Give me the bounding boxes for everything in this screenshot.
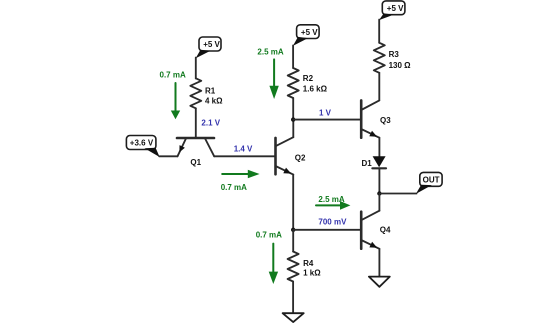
junction node OUT: [377, 191, 381, 195]
resistor R4: [288, 252, 322, 282]
wire 700mV node to R4: [292, 230, 294, 252]
svg-text:130 Ω: 130 Ω: [389, 61, 412, 70]
svg-text:0.7 mA: 0.7 mA: [160, 71, 186, 80]
power label +5V (above R2): [293, 25, 319, 46]
svg-text:Q3: Q3: [380, 116, 391, 125]
current arrow 2.5 mA (into Q4): [316, 195, 350, 210]
ground (below Q4): [369, 277, 390, 287]
transistor Q1: [177, 138, 214, 167]
svg-text:1.6 kΩ: 1.6 kΩ: [303, 84, 328, 93]
resistor R3: [374, 43, 411, 73]
current arrow 0.7 mA (R1): [160, 71, 186, 120]
svg-text:1 kΩ: 1 kΩ: [303, 268, 321, 277]
svg-text:+5 V: +5 V: [203, 40, 220, 49]
svg-text:+5 V: +5 V: [301, 28, 318, 37]
wire +5V to R3: [378, 20, 380, 43]
power label +5V (above R3): [379, 1, 405, 20]
current arrow 2.5 mA (R2): [257, 48, 283, 100]
svg-text:R4: R4: [303, 259, 314, 268]
resistor R1: [190, 78, 223, 108]
wire OUT node to OUT label: [379, 193, 416, 195]
svg-text:0.7 mA: 0.7 mA: [256, 231, 282, 240]
svg-text:0.7 mA: 0.7 mA: [221, 183, 247, 192]
wire OUT node to Q4 collector: [378, 194, 380, 211]
svg-text:OUT: OUT: [423, 176, 440, 185]
wire R2 to 1V node: [292, 98, 294, 120]
junction node 700mV: [291, 228, 295, 232]
wire +5V to R2: [292, 45, 294, 68]
svg-text:R1: R1: [205, 86, 216, 95]
svg-text:Q1: Q1: [190, 158, 201, 167]
wire Q2 emitter down to 700mV node: [292, 175, 294, 230]
wire Q1 collector to Q2 base (1.4V net): [214, 155, 275, 157]
wire +5V to R1: [195, 58, 197, 79]
current arrow 0.7 mA (base current into Q2): [221, 170, 260, 192]
svg-text:Q4: Q4: [380, 225, 391, 234]
ground (below R4): [283, 313, 304, 322]
svg-text:Q2: Q2: [295, 153, 306, 162]
wire Q4 emitter to ground: [378, 249, 380, 277]
svg-text:700 mV: 700 mV: [318, 217, 347, 226]
junction node 1V: [291, 117, 295, 121]
resistor R2: [288, 68, 328, 98]
svg-text:2.1 V: 2.1 V: [201, 119, 220, 128]
svg-text:4 kΩ: 4 kΩ: [205, 96, 223, 105]
svg-text:D1: D1: [362, 159, 373, 168]
svg-text:+3.6 V: +3.6 V: [130, 139, 154, 148]
power label +5V (above R1): [196, 37, 221, 58]
svg-text:1 V: 1 V: [319, 109, 332, 118]
current arrow 0.7 mA (R4): [256, 231, 282, 284]
wire D1 cathode to OUT node: [378, 168, 380, 193]
wire +3.6V to Q1 emitter: [159, 155, 177, 157]
wire R1 to Q1 base: [195, 108, 197, 138]
svg-text:2.5 mA: 2.5 mA: [257, 48, 283, 57]
output label OUT: [416, 172, 442, 194]
svg-text:+5 V: +5 V: [387, 4, 404, 13]
wire Q3 emitter to D1 anode: [378, 138, 380, 157]
wire 1V node to Q3 base: [293, 119, 360, 121]
transistor Q3: [361, 100, 391, 137]
wire Q2 collector to 1V node: [292, 120, 294, 138]
wire R3 to Q3 collector: [378, 73, 380, 101]
transistor Q2: [276, 137, 307, 174]
wire 700mV node to Q4 base: [293, 229, 360, 231]
svg-text:R2: R2: [303, 74, 314, 83]
transistor Q4: [361, 211, 391, 249]
svg-text:R3: R3: [389, 50, 400, 59]
diode D1: [362, 156, 387, 168]
wire R4 to ground: [292, 282, 294, 314]
svg-text:1.4 V: 1.4 V: [234, 145, 253, 154]
power label +3.6 V: [126, 136, 159, 158]
